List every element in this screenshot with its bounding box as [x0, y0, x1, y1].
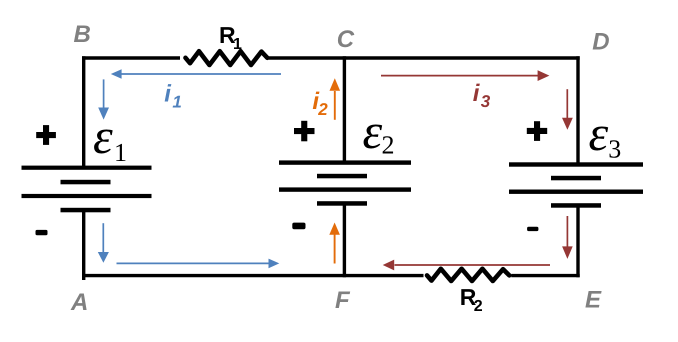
wire top B to R1 — [82, 56, 180, 59]
current arrow i2 up (top middle) — [330, 78, 341, 120]
svg-text:2: 2 — [382, 131, 395, 160]
svg-text:1: 1 — [172, 92, 181, 111]
current arrow right (bottom) — [117, 259, 280, 269]
battery E3 plate short — [551, 176, 601, 181]
resistor R1 — [186, 51, 268, 65]
current arrow down left bottom — [98, 223, 109, 263]
svg-text:B: B — [74, 21, 91, 48]
svg-text:ε: ε — [589, 105, 609, 161]
current arrow down right top (near D) — [562, 89, 573, 130]
resistor R2 — [427, 269, 509, 281]
svg-text:1: 1 — [114, 138, 127, 167]
current arrow i3 right (top) — [381, 70, 549, 81]
current arrow i1 left (top) — [111, 69, 281, 79]
current arrow down right bottom (near E) — [562, 216, 573, 259]
wire R2 to E — [511, 274, 579, 277]
current arrow left above R2 — [383, 260, 550, 271]
wire R1 to C to D — [269, 56, 580, 59]
current arrow down left top — [98, 79, 109, 119]
battery E1 plate short — [61, 180, 111, 185]
battery E3 plus — [527, 121, 547, 141]
battery E1 minus — [36, 230, 48, 235]
battery E3 plate short bottom — [551, 203, 601, 208]
svg-text:3: 3 — [481, 92, 491, 111]
battery E3 minus — [527, 227, 538, 231]
battery E2 plate long bottom — [279, 187, 411, 191]
battery E2 plate short — [317, 174, 367, 179]
svg-text:A: A — [70, 289, 88, 316]
wire left vertical B to battery E1 — [82, 56, 85, 166]
battery E2 plus — [294, 121, 315, 142]
battery E1 plate short bottom — [61, 208, 111, 213]
svg-text:ε: ε — [363, 103, 383, 159]
svg-text:3: 3 — [608, 135, 621, 164]
current arrow up (bottom middle) — [329, 223, 340, 264]
battery E3 plate long bottom — [509, 190, 643, 194]
svg-text:i: i — [473, 80, 481, 107]
wire right vertical D to battery E3 — [576, 56, 579, 163]
svg-text:1: 1 — [233, 36, 242, 53]
svg-text:D: D — [592, 28, 609, 55]
battery E1 plate long bottom — [22, 194, 152, 198]
svg-text:F: F — [335, 287, 351, 314]
battery E1 plus — [36, 125, 56, 145]
battery E3 plate long top — [509, 162, 643, 166]
battery E2 plate short bottom — [317, 201, 367, 206]
svg-text:i: i — [164, 80, 172, 107]
svg-text:E: E — [585, 287, 602, 314]
wire bottom A to R2 — [82, 274, 424, 277]
svg-text:2: 2 — [474, 298, 483, 315]
svg-text:2: 2 — [317, 100, 328, 119]
wire right vertical battery E3 to E — [576, 206, 579, 278]
svg-text:C: C — [337, 26, 355, 53]
battery E2 plate long top — [279, 160, 411, 164]
battery E2 minus — [292, 223, 305, 230]
battery E1 plate long top — [22, 166, 152, 170]
wire middle vertical C to battery E2 — [343, 56, 346, 161]
wire left vertical battery E1 to A — [82, 210, 85, 280]
wire middle vertical battery E2 to F — [343, 204, 346, 278]
